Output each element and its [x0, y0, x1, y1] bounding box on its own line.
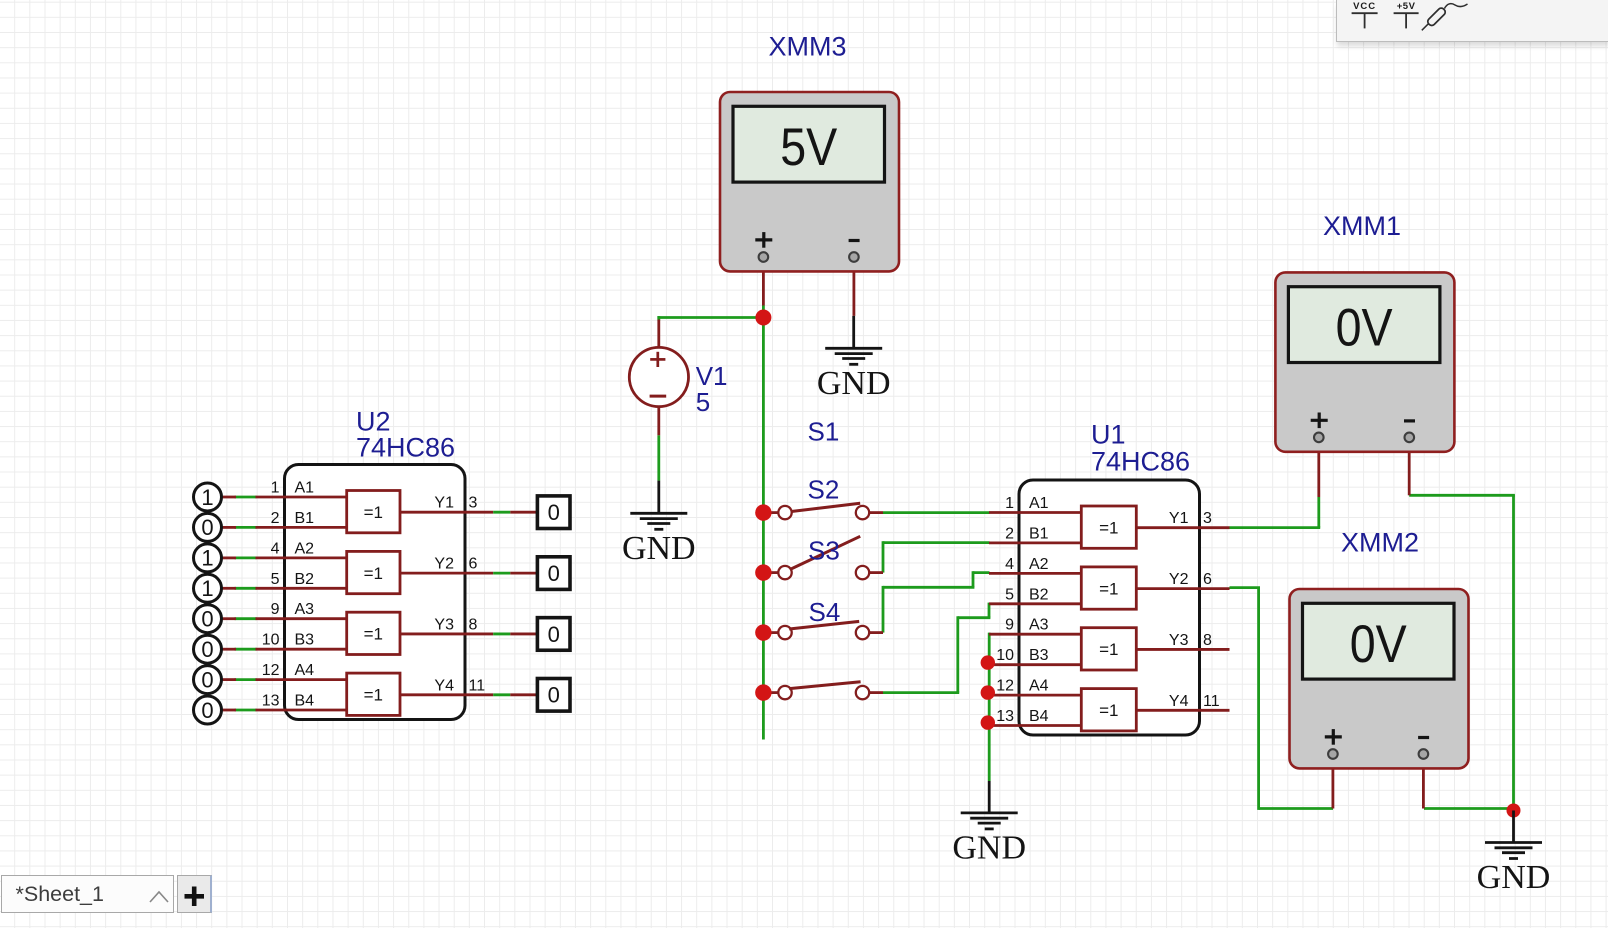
- wire XMM2 plus horizontal: [1259, 807, 1333, 810]
- svg-text:A4: A4: [1029, 678, 1049, 695]
- indicator output X2 pin: [510, 572, 537, 575]
- svg-text:74HC86: 74HC86: [1091, 447, 1190, 477]
- indicator output X1 value 0: [537, 496, 570, 529]
- S3 switch: [763, 571, 778, 574]
- svg-text:B3: B3: [1029, 647, 1049, 664]
- svg-text:0: 0: [201, 607, 213, 632]
- multimeter XMM2: [1290, 589, 1469, 768]
- pin U2 13 B4: [222, 709, 237, 712]
- svg-text:1: 1: [271, 480, 280, 497]
- wire XMM1 minus horizontal: [1409, 494, 1515, 497]
- pin U1 2 B1: [989, 542, 1081, 545]
- indicator output X4 pin: [510, 693, 537, 696]
- pin U2 4 A2: [222, 557, 237, 560]
- XOR gate U2D =1 box: [347, 673, 400, 715]
- toolbar panel fragment: [1336, 0, 1608, 42]
- svg-text:3: 3: [469, 495, 478, 512]
- wire pin2 to S3 vertical: [882, 541, 885, 572]
- svg-text:XMM1: XMM1: [1323, 211, 1401, 241]
- svg-text:11: 11: [1203, 693, 1220, 710]
- pin U1 12 A4: [989, 694, 1081, 697]
- wire right ground vertical: [1512, 495, 1515, 810]
- wire probe 7 to U2 pin 12: [235, 678, 257, 681]
- pin V1 plus: [657, 320, 660, 349]
- pin XMM1 plus: [1317, 439, 1320, 497]
- pin U2 output Y3 8: [400, 633, 493, 636]
- pin U2 1 A1: [222, 496, 237, 499]
- svg-text:8: 8: [469, 616, 478, 633]
- XOR gate U1D =1 box: [1081, 689, 1136, 731]
- probe input 1 value 1: [194, 483, 222, 511]
- svg-text:2: 2: [1005, 525, 1014, 542]
- svg-text:S1: S1: [808, 417, 840, 447]
- S4 switch: [763, 631, 778, 634]
- svg-text:=1: =1: [364, 503, 383, 522]
- pin U1 output Y1 3: [1136, 526, 1229, 529]
- indicator output X3 value 0: [537, 618, 570, 651]
- pin U2 output Y1 3: [400, 511, 493, 514]
- junction bus row 3: [755, 624, 771, 640]
- svg-text:1: 1: [1005, 495, 1014, 512]
- svg-text:GND: GND: [1477, 859, 1551, 896]
- svg-text:0V: 0V: [1350, 615, 1408, 674]
- svg-text:=1: =1: [364, 686, 383, 705]
- svg-text:0: 0: [201, 637, 213, 662]
- wire probe 1 to U2 pin 1: [235, 496, 257, 499]
- svg-text:Y2: Y2: [1169, 571, 1189, 588]
- new sheet plus button: [177, 875, 212, 912]
- svg-text:B4: B4: [1029, 708, 1049, 725]
- probe input 6 value 0: [194, 635, 222, 663]
- svg-text:3: 3: [1203, 510, 1212, 527]
- switch S5: [763, 691, 778, 694]
- pin V1 minus: [657, 406, 660, 436]
- XOR gate U2A =1 box: [347, 491, 400, 533]
- wire +5V vertical bus: [762, 318, 765, 740]
- wire V1 minus to GND: [657, 435, 660, 480]
- wire pin4 jog vertical: [972, 571, 975, 587]
- svg-text:Y3: Y3: [1169, 632, 1189, 649]
- svg-text:12: 12: [262, 662, 280, 679]
- pin U2 10 B3: [222, 648, 237, 651]
- wire Y2 to XMM2: [1230, 586, 1261, 589]
- svg-text:GND: GND: [622, 530, 696, 567]
- wire pin5 horizontal: [958, 616, 991, 619]
- pin XMM2 plus: [1332, 756, 1335, 809]
- pin U2 2 B1: [222, 526, 237, 529]
- sheet tab Sheet_1: [1, 875, 174, 912]
- svg-text:11: 11: [469, 677, 486, 694]
- svg-text:A4: A4: [295, 662, 315, 679]
- svg-text:0: 0: [548, 500, 560, 525]
- svg-text:1: 1: [201, 576, 213, 601]
- svg-text:0: 0: [548, 683, 560, 708]
- voltage source V1: [629, 347, 688, 406]
- toolbar VCC power symbol: [1352, 1, 1378, 28]
- IC U1 74HC86 body: [1019, 480, 1200, 735]
- svg-text:13: 13: [996, 708, 1014, 725]
- pin XMM3 plus: [762, 259, 765, 306]
- svg-text:8: 8: [1203, 632, 1212, 649]
- wire node A to V1 top: [657, 316, 764, 319]
- toolbar probe icon: [1422, 4, 1468, 31]
- svg-text:=1: =1: [364, 564, 383, 583]
- probe input 7 value 0: [194, 666, 222, 694]
- pin U2 output Y2 6: [400, 572, 493, 575]
- wire U1 pin 4 stub: [973, 571, 990, 574]
- wire probe 6 to U2 pin 10: [235, 648, 257, 651]
- pin U2 5 B2: [222, 587, 237, 590]
- pin XMM3 minus: [853, 259, 856, 316]
- junction node A: [755, 310, 771, 326]
- svg-text:5: 5: [1005, 586, 1014, 603]
- wire U2 Y1 to indicator: [493, 511, 510, 514]
- junction ground net: [981, 715, 995, 729]
- junction right ground: [1507, 804, 1521, 818]
- wire U1 pin 2 horizontal: [883, 541, 990, 544]
- svg-text:A1: A1: [1029, 495, 1049, 512]
- svg-text:GND: GND: [952, 830, 1026, 867]
- XOR gate U1A =1 box: [1081, 506, 1136, 548]
- wire +5V bus from XMM3 plus to node A: [762, 306, 765, 318]
- probe input 8 value 0: [194, 696, 222, 724]
- ground below U1: [952, 781, 1026, 867]
- svg-text:0: 0: [201, 515, 213, 540]
- svg-text:Y4: Y4: [1169, 693, 1189, 710]
- svg-text:0: 0: [548, 622, 560, 647]
- indicator output X1 pin: [510, 511, 537, 514]
- pin XMM2 minus: [1422, 756, 1425, 809]
- svg-text:1: 1: [201, 485, 213, 510]
- svg-text:Y1: Y1: [1169, 510, 1189, 527]
- svg-text:=1: =1: [1099, 579, 1118, 598]
- svg-text:B1: B1: [295, 510, 315, 527]
- svg-text:5: 5: [271, 571, 280, 588]
- wire S2 to U1 pin 1: [883, 511, 990, 514]
- svg-text:Y4: Y4: [434, 677, 454, 694]
- svg-text:13: 13: [262, 693, 280, 710]
- IC U2 74HC86 body: [285, 465, 466, 720]
- wire pin5 long vertical: [956, 616, 959, 692]
- wire probe 4 to U2 pin 5: [235, 587, 257, 590]
- junction ground net: [981, 685, 995, 699]
- svg-text:A3: A3: [295, 601, 315, 618]
- pin U1 9 A3: [989, 633, 1081, 636]
- wire XMM2 minus horizontal: [1424, 807, 1514, 810]
- wire probe 3 to U2 pin 4: [235, 557, 257, 560]
- indicator output X2 value 0: [537, 557, 570, 590]
- wire U2 Y2 to indicator: [493, 572, 510, 575]
- pin XMM1 minus: [1408, 439, 1411, 495]
- svg-text:5V: 5V: [780, 118, 838, 177]
- svg-text:12: 12: [996, 678, 1014, 695]
- probe input 3 value 1: [194, 544, 222, 572]
- svg-text:B2: B2: [1029, 586, 1049, 603]
- pin U1 output Y3 8: [1136, 648, 1229, 651]
- svg-text:0: 0: [548, 561, 560, 586]
- svg-text:4: 4: [1005, 556, 1014, 573]
- svg-text:2: 2: [271, 510, 280, 527]
- wire XMM1 plus vertical: [1317, 497, 1320, 528]
- ground below XMM3: [817, 316, 891, 402]
- svg-text:B3: B3: [295, 632, 315, 649]
- wire to fourth switch: [883, 691, 959, 694]
- svg-text:=1: =1: [1099, 519, 1118, 538]
- pin U1 5 B2: [989, 602, 1081, 605]
- junction bus row 4: [755, 684, 771, 700]
- wire Y1 to XMM1 plus: [1230, 526, 1321, 529]
- svg-text:A1: A1: [295, 480, 315, 497]
- svg-text:XMM2: XMM2: [1341, 528, 1419, 558]
- wire U1 ground net vertical: [988, 633, 991, 781]
- XOR gate U2B =1 box: [347, 551, 400, 593]
- junction bus row 2: [755, 564, 771, 580]
- svg-text:1: 1: [201, 546, 213, 571]
- pin U2 output Y4 11: [400, 693, 493, 696]
- svg-text:74HC86: 74HC86: [356, 433, 455, 463]
- svg-text:10: 10: [262, 632, 280, 649]
- pin U1 output Y2 6: [1136, 587, 1229, 590]
- XOR gate U1B =1 box: [1081, 567, 1136, 609]
- svg-text:Y2: Y2: [434, 556, 454, 573]
- svg-text:=1: =1: [1099, 640, 1118, 659]
- wire pin4 to S4 vertical: [882, 586, 885, 633]
- probe input 4 value 1: [194, 574, 222, 602]
- wire V1 top vertical: [657, 316, 660, 320]
- indicator output X4 value 0: [537, 679, 570, 712]
- svg-text:Y3: Y3: [434, 616, 454, 633]
- svg-text:9: 9: [1005, 617, 1014, 634]
- svg-text:0V: 0V: [1336, 299, 1394, 358]
- svg-text:Y1: Y1: [434, 495, 454, 512]
- svg-text:=1: =1: [364, 625, 383, 644]
- toolbar +5V power symbol: [1394, 1, 1419, 28]
- pin U1 10 B3: [989, 663, 1081, 666]
- pin U1 13 B4: [989, 724, 1081, 727]
- svg-text:XMM3: XMM3: [769, 32, 847, 62]
- multimeter XMM1: [1275, 272, 1454, 451]
- wire probe 2 to U2 pin 2: [235, 526, 257, 529]
- pin U1 output Y4 11: [1136, 709, 1229, 712]
- svg-text:B2: B2: [295, 571, 315, 588]
- pin U2 12 A4: [222, 678, 237, 681]
- pin U1 4 A2: [989, 572, 1081, 575]
- svg-text:A2: A2: [295, 540, 315, 557]
- svg-text:S3: S3: [808, 536, 840, 566]
- svg-text:0: 0: [201, 667, 213, 692]
- svg-text:9: 9: [271, 601, 280, 618]
- S2 switch: [763, 511, 778, 514]
- svg-text:0: 0: [201, 698, 213, 723]
- svg-text:GND: GND: [817, 365, 891, 402]
- wire U2 Y4 to indicator: [493, 693, 510, 696]
- probe input 2 value 0: [194, 513, 222, 541]
- wire pin4 horizontal: [883, 586, 974, 589]
- indicator output X3 pin: [510, 633, 537, 636]
- probe input 5 value 0: [194, 605, 222, 633]
- ground below V1: [622, 481, 696, 567]
- svg-text:6: 6: [1203, 571, 1212, 588]
- wire U2 Y3 to indicator: [493, 633, 510, 636]
- svg-text:5: 5: [696, 387, 710, 417]
- wire U1 pin 5 vertical: [988, 603, 991, 618]
- svg-text:S4: S4: [809, 597, 841, 627]
- XOR gate U2C =1 box: [347, 612, 400, 654]
- multimeter XMM3: [720, 92, 899, 271]
- svg-text:10: 10: [996, 647, 1014, 664]
- ground bottom right: [1477, 811, 1551, 897]
- svg-text:S2: S2: [808, 475, 840, 505]
- XOR gate U1C =1 box: [1081, 628, 1136, 670]
- wire XMM2 plus vertical: [1257, 588, 1260, 810]
- svg-text:4: 4: [271, 540, 280, 557]
- svg-text:B1: B1: [1029, 525, 1049, 542]
- svg-text:B4: B4: [295, 693, 315, 710]
- svg-text:A2: A2: [1029, 556, 1049, 573]
- junction bus row 1: [755, 504, 771, 520]
- wire probe 8 to U2 pin 13: [235, 709, 257, 712]
- pin U1 1 A1: [989, 511, 1081, 514]
- wire probe 5 to U2 pin 9: [235, 617, 257, 620]
- svg-text:=1: =1: [1099, 701, 1118, 720]
- svg-text:A3: A3: [1029, 617, 1049, 634]
- svg-text:6: 6: [469, 556, 478, 573]
- pin U2 9 A3: [222, 617, 237, 620]
- junction ground net: [981, 655, 995, 669]
- svg-text:U1: U1: [1091, 420, 1126, 450]
